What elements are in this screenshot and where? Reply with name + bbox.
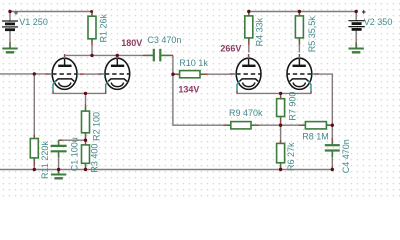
svg-text:R11 220k: R11 220k (40, 141, 50, 179)
triode U1 (left pair, left half) (46, 54, 78, 94)
wire: R7 node down to R6 (280, 125, 282, 140)
wire: R10 right to tube3 grid (207, 73, 230, 75)
node dot R7/R6/R9/R8 (279, 124, 282, 127)
svg-text:R6 27k: R6 27k (286, 142, 296, 171)
node dot tube2 anode (116, 54, 119, 57)
wire: V1 top to R1 top rail (10, 11, 91, 13)
wire: cathode bus drop to R2 (85, 93, 87, 105)
node dot V2 top (355, 10, 358, 13)
wire: R1 bottom to anode rail (91, 45, 93, 56)
wire: R4 bottom to tube3 anode (248, 44, 250, 52)
node dot V1 top (8, 10, 11, 13)
node dot grid/R11 (33, 72, 36, 75)
resistor R6 (277, 140, 285, 169)
wire: right top rail R4 R5 to V2 (249, 11, 356, 13)
capacitor C3 (143, 49, 173, 62)
node dot R2/R3/C1 (84, 139, 87, 142)
svg-text:C1 100u: C1 100u (70, 137, 80, 171)
wire: V1 battery leads (9, 12, 11, 43)
wire: R11 bottom to ground rail (33, 165, 35, 170)
capacitor C1 (51, 140, 67, 157)
node dot rail C4 (331, 168, 334, 171)
wire: C4 bottom to ground rail (331, 157, 333, 170)
node dot rail R3 (84, 168, 87, 171)
svg-text:R7 900: R7 900 (287, 92, 297, 121)
svg-text:C4 470n: C4 470n (341, 139, 351, 173)
node dot R5 top (298, 10, 301, 13)
wire: R6 bottom to ground rail (280, 167, 282, 170)
resistor R11 (30, 135, 38, 166)
svg-text:V1 250: V1 250 (19, 17, 48, 27)
resistor R10 (173, 71, 208, 78)
svg-text:R4 33k: R4 33k (255, 17, 265, 46)
resistor R5 (295, 12, 303, 45)
triode U1 right grid stub (77, 73, 80, 75)
wire: tube4 grid to feedback node (317, 74, 332, 138)
resistor R1 (88, 12, 96, 46)
wire: drop to R11 (33, 74, 35, 135)
pin V2 bottom (355, 42, 357, 44)
wire: left input to tube1 grid (0, 73, 46, 75)
node dot left cathode bus (84, 92, 87, 95)
battery V2 (348, 10, 365, 29)
wire: right cathode bus (237, 92, 311, 94)
node dot right cathode bus (279, 92, 282, 95)
node dot R10 left (171, 73, 174, 76)
wire: R9 to R7 node to R8 (259, 124, 300, 126)
resistor R8 (299, 122, 332, 129)
resistor R4 (245, 12, 253, 45)
triode U4 (right pair, right, mirrored) (287, 54, 319, 94)
wire: V2 battery leads (355, 12, 357, 43)
wire: C1 top to R2/R3 node (59, 139, 86, 141)
svg-text:R1 26k: R1 26k (98, 13, 108, 42)
node dot anode/R1 (90, 54, 93, 57)
wire: C1 bottom to ground rail (58, 157, 60, 170)
ground under V1 (2, 44, 17, 53)
node dot rail R11 (33, 168, 36, 171)
svg-text:180V: 180V (121, 38, 142, 48)
svg-text:R5 35,5k: R5 35,5k (307, 16, 317, 53)
triode U2 (left pair, right half) (98, 54, 130, 94)
resistor R9 (223, 122, 259, 129)
svg-text:R10 1k: R10 1k (179, 58, 208, 68)
ground under V2 (349, 44, 364, 53)
wire: tube1 grid right to tube2 grid (83, 73, 98, 75)
svg-text:C3 470n: C3 470n (147, 35, 181, 45)
wire: C3 right corner down to R9 row (173, 55, 224, 125)
ground under C1 (51, 170, 66, 179)
capacitor C4 (325, 138, 340, 169)
wire: ground rail (0, 169, 332, 171)
node dot R8/C4/grid (331, 124, 334, 127)
wire: anode rail tube1-tube2 to C3 (66, 54, 144, 56)
svg-text:R2 100: R2 100 (92, 112, 102, 141)
node dot rail R6 (279, 168, 282, 171)
svg-text:R3 400: R3 400 (90, 144, 100, 173)
battery V1 (2, 11, 18, 30)
node dot R4 top (247, 10, 250, 13)
resistor R7 (277, 95, 285, 123)
wire: R7 top connection (280, 93, 282, 96)
wire: left cathode bus (53, 92, 106, 94)
wire: R5 bottom to tube4 anode (298, 44, 300, 52)
pin V1 bottom (9, 42, 11, 44)
resistor R2 (82, 105, 90, 140)
svg-text:266V: 266V (220, 44, 241, 54)
resistor R3 (82, 141, 90, 170)
svg-text:R8 1M: R8 1M (302, 131, 329, 141)
node dot R1 top (90, 10, 93, 13)
svg-text:R9 470k: R9 470k (229, 108, 263, 118)
triode U3 (right pair, left) (230, 54, 262, 94)
svg-text:V2 350: V2 350 (364, 17, 393, 27)
svg-text:134V: 134V (178, 84, 199, 94)
node dot rail C1 (57, 168, 60, 171)
